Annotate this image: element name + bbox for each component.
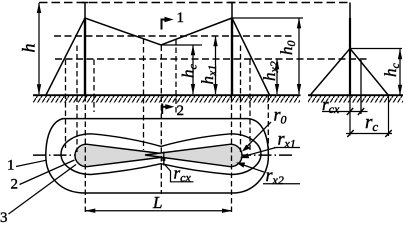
- svg-text:2: 2: [177, 103, 185, 119]
- svg-text:hc: hc: [381, 63, 402, 78]
- svg-text:L: L: [152, 193, 162, 212]
- svg-text:h: h: [19, 44, 39, 53]
- svg-text:rx2: rx2: [266, 165, 284, 187]
- svg-text:rcx: rcx: [174, 164, 192, 185]
- svg-text:h0: h0: [277, 41, 298, 56]
- svg-text:1: 1: [177, 10, 185, 26]
- svg-text:r0: r0: [274, 105, 287, 127]
- svg-text:1: 1: [7, 158, 15, 174]
- svg-text:2: 2: [11, 177, 19, 193]
- svg-text:rc: rc: [365, 112, 378, 134]
- svg-text:hx2: hx2: [260, 61, 281, 81]
- svg-text:3: 3: [0, 210, 8, 223]
- svg-text:hc: hc: [179, 64, 200, 79]
- svg-text:rx1: rx1: [278, 129, 296, 151]
- svg-text:hx1: hx1: [198, 65, 219, 85]
